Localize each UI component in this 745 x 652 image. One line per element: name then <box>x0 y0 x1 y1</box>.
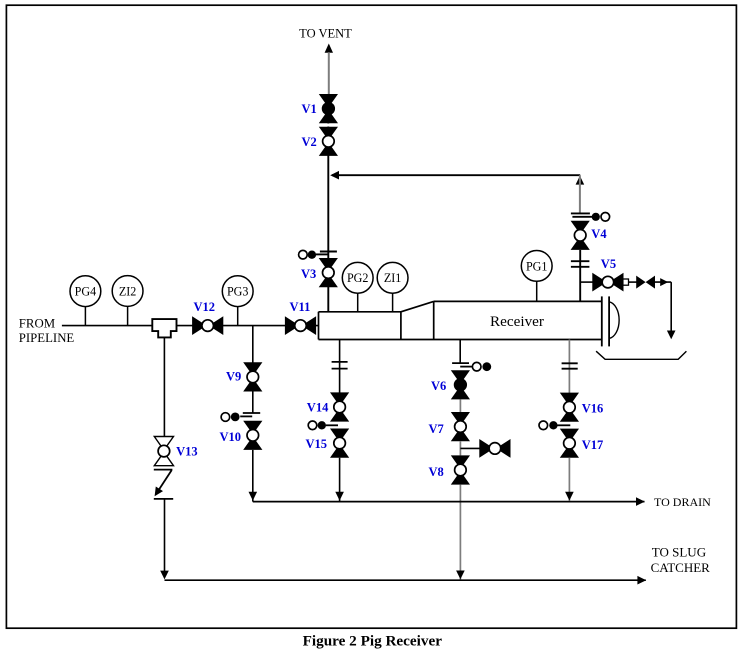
wire ZI1 stem <box>392 293 394 312</box>
wire main pipe <box>62 325 319 327</box>
svg-text:PG3: PG3 <box>227 285 249 299</box>
hose break symbol <box>151 470 173 499</box>
instrument ZI2 <box>112 276 143 307</box>
svg-text:V7: V7 <box>429 422 444 436</box>
check valve <box>636 276 655 289</box>
arrow down V8 slug <box>456 571 465 580</box>
instrument PG4 <box>70 276 101 307</box>
flange below V4 <box>571 261 590 267</box>
svg-text:Figure 2 Pig Receiver: Figure 2 Pig Receiver <box>303 633 443 650</box>
wire V15 to drain <box>339 458 341 502</box>
wire corner down <box>670 282 672 331</box>
arrow right to slug catcher <box>637 576 646 585</box>
svg-text:V4: V4 <box>591 227 607 241</box>
wire check valve out <box>655 281 671 283</box>
svg-text:V13: V13 <box>176 445 198 459</box>
receiver vessel body <box>319 301 602 339</box>
wire slug line <box>165 579 646 581</box>
svg-text:FROM: FROM <box>19 317 55 331</box>
svg-text:V14: V14 <box>307 401 329 415</box>
receiver door arc <box>609 302 619 339</box>
svg-text:V11: V11 <box>290 300 311 314</box>
instrument PG1 <box>521 251 552 282</box>
valve V2 <box>319 127 338 156</box>
valve V15 <box>330 429 349 458</box>
svg-text:TO VENT: TO VENT <box>299 27 352 41</box>
valve V7 <box>451 412 470 441</box>
svg-text:PIPELINE: PIPELINE <box>19 331 75 345</box>
spectacle blind between V9 and V10 <box>221 413 260 422</box>
wire branch to sample valve <box>460 447 480 449</box>
wire V8 down gray <box>459 485 461 580</box>
wire PG4 stem <box>84 307 86 326</box>
wire drain line <box>253 501 645 503</box>
svg-text:V16: V16 <box>582 401 604 415</box>
wire right corner drop gray <box>579 175 581 212</box>
arrow down at tray <box>667 331 676 340</box>
wire V10 to drain <box>252 450 254 502</box>
wire vent stem gray <box>328 52 330 94</box>
valve V9 <box>243 362 262 391</box>
svg-text:PG2: PG2 <box>347 271 369 285</box>
svg-text:CATCHER: CATCHER <box>651 560 711 575</box>
svg-text:V1: V1 <box>302 102 317 116</box>
valve V12 <box>192 316 223 335</box>
wire V6 to V7 gray <box>459 399 461 412</box>
wire V4 to flange <box>579 250 581 302</box>
svg-text:V3: V3 <box>301 267 316 281</box>
instrument PG2 <box>342 262 373 293</box>
drip tray <box>596 351 686 359</box>
svg-text:Receiver: Receiver <box>490 313 544 330</box>
svg-text:ZI2: ZI2 <box>119 284 136 298</box>
spectacle blind above V4 <box>571 213 610 222</box>
wire V16 stem gray <box>568 340 570 394</box>
svg-text:V15: V15 <box>306 437 328 451</box>
spectacle blind between V16 and V17 <box>539 421 570 430</box>
svg-text:TO DRAIN: TO DRAIN <box>654 495 711 509</box>
wire V13 to slug line <box>164 499 166 572</box>
arrow down V15 drain <box>335 492 344 501</box>
vent arrow up <box>325 44 333 53</box>
svg-text:V9: V9 <box>226 370 241 384</box>
instrument ZI1 <box>377 262 408 293</box>
wire V14 stem <box>339 340 341 393</box>
valve V5 <box>592 273 623 292</box>
wire ZI2 stem <box>127 306 129 325</box>
svg-text:PG4: PG4 <box>75 285 97 299</box>
valve V11 <box>285 316 316 335</box>
white gap between V1 and V2 <box>319 124 339 127</box>
valve sample valve <box>479 439 510 458</box>
valve V17 <box>560 429 579 458</box>
valve V8 <box>451 455 470 484</box>
valve V6 <box>451 370 470 399</box>
spool square after V5 <box>623 279 629 285</box>
svg-text:V8: V8 <box>429 465 444 479</box>
wire V9 branch <box>252 326 254 413</box>
arrow up below corner <box>576 176 585 185</box>
wire PG1 stem <box>536 281 538 301</box>
svg-text:V17: V17 <box>582 438 604 452</box>
valve V3 <box>319 258 338 287</box>
spectacle blind above V3 <box>299 250 337 259</box>
wire to V5 <box>580 281 593 283</box>
arrow right before corner <box>660 278 668 286</box>
wire PG3 stem <box>237 307 239 326</box>
flange above V16 <box>562 363 578 368</box>
tee fitting <box>152 319 176 337</box>
spectacle blind between V14 and V15 <box>308 421 338 430</box>
svg-text:V5: V5 <box>601 257 616 271</box>
wire PG2 stem <box>357 293 359 312</box>
svg-text:V10: V10 <box>220 430 242 444</box>
arrow down V13 slug <box>160 571 169 580</box>
svg-text:V6: V6 <box>431 379 446 393</box>
svg-text:V2: V2 <box>302 135 317 149</box>
valve V16 <box>560 393 579 422</box>
wire vent line <box>327 123 329 313</box>
valve V13 <box>154 437 173 466</box>
wire tee drop <box>163 337 165 436</box>
svg-text:ZI1: ZI1 <box>384 271 401 285</box>
arrow right to drain <box>636 497 645 506</box>
instrument PG3 <box>222 276 253 307</box>
valve V4 <box>571 221 590 250</box>
receiver door flanges <box>601 296 603 346</box>
arrow left at vent line <box>330 171 339 180</box>
wire V17 to drain gray <box>568 458 570 501</box>
svg-text:PG1: PG1 <box>526 259 548 273</box>
svg-text:TO SLUG: TO SLUG <box>652 544 706 559</box>
wire equalizer line <box>332 174 580 176</box>
valve V1 <box>319 94 338 123</box>
wire V6 stem <box>459 340 461 364</box>
spectacle blind above V6 <box>452 362 491 371</box>
svg-text:V12: V12 <box>194 300 216 314</box>
wire square to check valve <box>629 281 638 283</box>
arrow down V17 drain <box>565 492 574 501</box>
wire V7 to V8 gray <box>459 441 461 455</box>
flange above V14 <box>332 362 348 369</box>
valve V10 <box>243 421 262 450</box>
valve V14 <box>330 392 349 421</box>
arrow down V10 drain <box>249 492 258 501</box>
